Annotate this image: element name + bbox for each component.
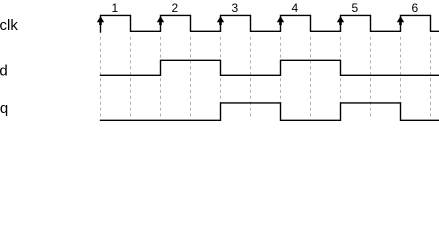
- gridline x=100: [100, 37, 102, 120]
- svg-text:6: 6: [411, 1, 418, 15]
- gridline x=160: [160, 37, 162, 120]
- clk rising-edge arrow 6: [397, 16, 404, 25]
- dashed vertical gridlines at each clock half-period: [101, 37, 431, 120]
- q waveform: [101, 103, 439, 120]
- svg-text:clk: clk: [0, 17, 18, 34]
- d waveform: [101, 60, 439, 75]
- gridline x=430: [430, 37, 432, 120]
- gridline x=130: [130, 37, 132, 120]
- gridline x=310: [310, 37, 312, 120]
- svg-text:3: 3: [231, 1, 238, 15]
- clk rising-edge arrow 5: [337, 16, 344, 25]
- svg-text:5: 5: [351, 1, 358, 15]
- clk rising-edge arrow 1: [97, 16, 104, 25]
- gridline x=220: [220, 37, 222, 120]
- gridline x=340: [340, 37, 342, 120]
- gridline x=250: [250, 37, 252, 120]
- clk rising-edge arrow 4: [277, 16, 284, 25]
- gridline x=190: [190, 37, 192, 120]
- gridline x=400: [400, 37, 402, 120]
- svg-text:1: 1: [111, 1, 118, 15]
- svg-text:d: d: [0, 62, 8, 79]
- clk rising-edge arrow 3: [217, 16, 224, 25]
- clk rising-edge arrow 2: [157, 16, 164, 25]
- svg-text:2: 2: [171, 1, 178, 15]
- gridline x=280: [280, 37, 282, 120]
- svg-text:q: q: [0, 100, 8, 117]
- gridline x=370: [370, 37, 372, 120]
- clk waveform: [101, 15, 439, 32]
- svg-text:4: 4: [291, 1, 298, 15]
